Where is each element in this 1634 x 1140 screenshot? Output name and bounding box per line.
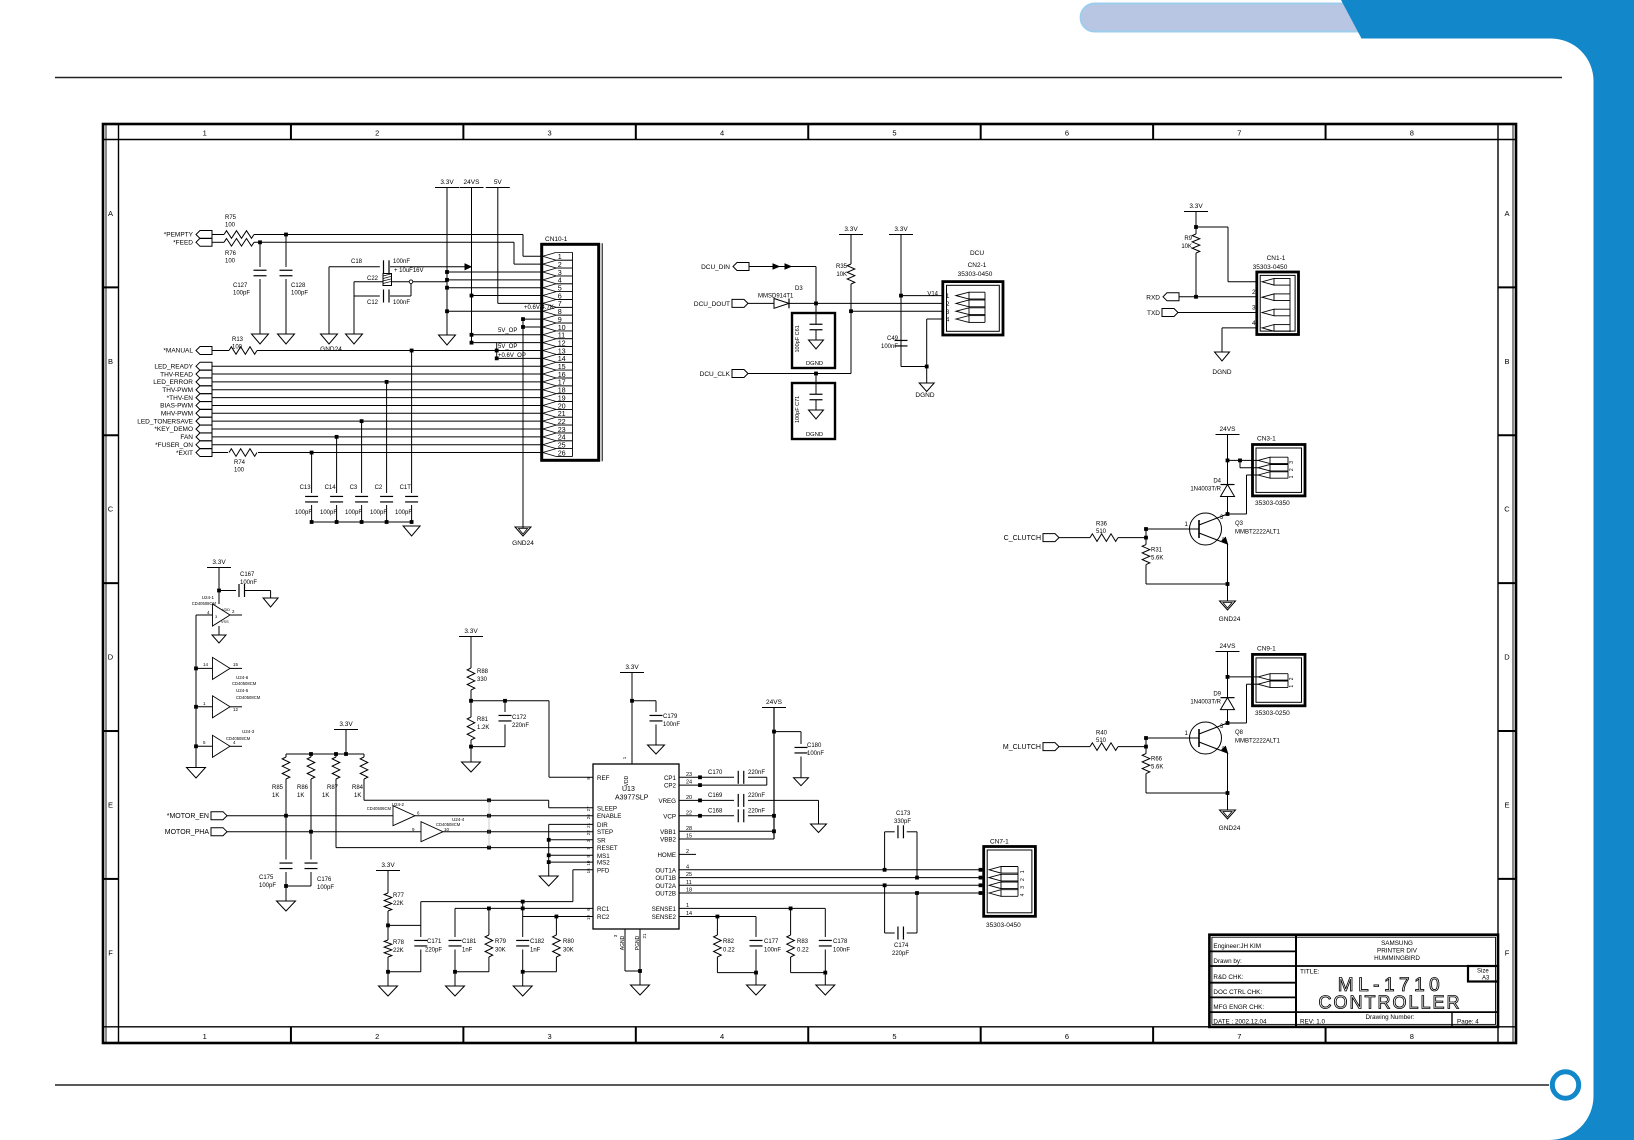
svg-text:5: 5	[892, 129, 896, 138]
svg-text:21: 21	[586, 822, 591, 828]
svg-text:D3: D3	[795, 286, 803, 292]
svg-text:C14: C14	[325, 485, 337, 491]
svg-text:100nF: 100nF	[764, 948, 781, 954]
svg-text:220nF: 220nF	[512, 723, 529, 729]
svg-text:35303-0450: 35303-0450	[958, 271, 993, 278]
svg-text:2: 2	[1289, 468, 1295, 471]
svg-text:*FUSER_ON: *FUSER_ON	[155, 442, 193, 449]
svg-text:CD40508CM: CD40508CM	[232, 681, 257, 686]
svg-text:MOTOR_PHA: MOTOR_PHA	[165, 829, 210, 836]
svg-text:4: 4	[720, 129, 724, 138]
svg-text:R76: R76	[225, 251, 237, 257]
svg-text:C172: C172	[512, 715, 527, 721]
svg-text:24VS: 24VS	[1220, 426, 1237, 433]
svg-text:2: 2	[375, 1032, 379, 1041]
svg-text:2: 2	[1289, 677, 1295, 680]
svg-text:HUMMINGBIRD: HUMMINGBIRD	[1374, 955, 1420, 962]
svg-text:100pF: 100pF	[370, 510, 387, 516]
svg-text:1.2K: 1.2K	[477, 725, 489, 731]
svg-text:+ 10uF16V: + 10uF16V	[394, 268, 424, 274]
svg-text:CD40508CM: CD40508CM	[236, 695, 261, 700]
svg-text:C181: C181	[462, 939, 477, 945]
svg-text:CN1-1: CN1-1	[1267, 255, 1286, 262]
svg-text:MMSD914T1: MMSD914T1	[758, 294, 794, 300]
svg-text:HOME: HOME	[657, 852, 676, 859]
svg-text:330pF: 330pF	[894, 819, 911, 825]
svg-text:R80: R80	[563, 939, 575, 945]
svg-text:100: 100	[232, 345, 243, 351]
svg-text:C13: C13	[300, 485, 312, 491]
svg-text:3: 3	[1289, 461, 1295, 464]
svg-text:7: 7	[1237, 129, 1241, 138]
svg-text:4: 4	[720, 1032, 724, 1041]
svg-text:DCU: DCU	[970, 250, 984, 257]
svg-text:V14: V14	[927, 292, 938, 298]
svg-text:10: 10	[586, 860, 591, 866]
svg-text:CN7-1: CN7-1	[990, 839, 1009, 846]
svg-text:R40: R40	[1096, 731, 1108, 737]
svg-text:F: F	[1505, 948, 1510, 957]
svg-text:C173: C173	[896, 811, 911, 817]
svg-text:MMBT2222ALT1: MMBT2222ALT1	[1235, 530, 1281, 536]
svg-text:35303-0450: 35303-0450	[1253, 264, 1288, 271]
svg-text:C180: C180	[807, 743, 822, 749]
svg-text:C182: C182	[530, 939, 545, 945]
svg-text:U24-5: U24-5	[236, 688, 249, 693]
svg-text:C_CLUTCH: C_CLUTCH	[1004, 535, 1041, 542]
svg-text:GND24: GND24	[512, 540, 534, 547]
svg-text:U24-6: U24-6	[236, 675, 249, 680]
svg-text:3: 3	[1020, 886, 1026, 889]
svg-text:VDD: VDD	[624, 775, 630, 786]
svg-text:VBB2: VBB2	[660, 837, 676, 844]
svg-text:VDD: VDD	[222, 608, 230, 612]
svg-text:DGND: DGND	[806, 361, 823, 367]
svg-text:26: 26	[558, 448, 566, 457]
svg-text:C178: C178	[833, 939, 848, 945]
svg-text:DGND: DGND	[915, 392, 934, 399]
svg-text:C12: C12	[367, 300, 379, 306]
svg-text:2: 2	[375, 129, 379, 138]
svg-text:100pF: 100pF	[345, 510, 362, 516]
svg-text:100pF C71: 100pF C71	[795, 396, 801, 423]
svg-text:1: 1	[203, 129, 207, 138]
svg-text:C: C	[108, 505, 114, 514]
svg-text:10K: 10K	[836, 272, 847, 278]
svg-text:100pF: 100pF	[291, 291, 308, 297]
svg-text:3.3V: 3.3V	[339, 721, 353, 728]
svg-text:22K: 22K	[393, 901, 404, 907]
svg-text:R78: R78	[393, 940, 405, 946]
svg-text:RXD: RXD	[1146, 295, 1160, 302]
svg-text:VSS: VSS	[221, 620, 229, 624]
svg-text:C: C	[1504, 505, 1510, 514]
svg-text:100pF C61: 100pF C61	[795, 325, 801, 352]
svg-text:RC2: RC2	[597, 914, 610, 921]
svg-text:TITLE:: TITLE:	[1300, 969, 1320, 976]
svg-text:*PEMPTY: *PEMPTY	[164, 232, 194, 239]
svg-text:B: B	[108, 357, 113, 366]
svg-text:C167: C167	[240, 572, 255, 578]
svg-text:Drawn by:: Drawn by:	[1213, 958, 1242, 965]
svg-text:C18: C18	[351, 259, 363, 265]
svg-text:C127: C127	[233, 283, 248, 289]
svg-text:F: F	[108, 948, 113, 957]
svg-text:+0.6V_OP: +0.6V_OP	[498, 353, 526, 359]
svg-text:C175: C175	[259, 875, 274, 881]
svg-text:C22: C22	[367, 276, 379, 282]
svg-text:DOC CTRL CHK:: DOC CTRL CHK:	[1213, 989, 1262, 996]
svg-text:OUT2A: OUT2A	[655, 883, 677, 890]
svg-text:3.3V: 3.3V	[464, 628, 478, 635]
svg-text:1N4003T/R: 1N4003T/R	[1190, 487, 1221, 493]
svg-text:Q3: Q3	[1235, 521, 1244, 527]
svg-text:330: 330	[477, 677, 488, 683]
svg-text:CN3-1: CN3-1	[1257, 436, 1276, 443]
svg-text:220nF: 220nF	[748, 793, 765, 799]
svg-text:3.3V: 3.3V	[440, 179, 454, 186]
svg-text:CP1: CP1	[664, 775, 677, 782]
svg-text:21: 21	[642, 933, 647, 939]
svg-text:220nF: 220nF	[748, 770, 765, 776]
svg-text:R74: R74	[234, 460, 246, 466]
svg-text:CONTROLLER: CONTROLLER	[1318, 993, 1461, 1013]
svg-text:A: A	[108, 209, 113, 218]
svg-text:GND24: GND24	[1219, 616, 1241, 623]
svg-text:MS2: MS2	[597, 860, 610, 867]
svg-text:26: 26	[586, 814, 591, 820]
svg-text:E: E	[108, 800, 113, 809]
svg-text:5V: 5V	[494, 179, 503, 186]
svg-text:LED_READY: LED_READY	[154, 363, 193, 370]
svg-text:14: 14	[203, 662, 209, 667]
svg-text:510: 510	[1096, 738, 1107, 744]
svg-text:1K: 1K	[354, 793, 361, 799]
svg-text:R31: R31	[1151, 548, 1163, 554]
svg-text:6: 6	[1065, 1032, 1069, 1041]
svg-text:1N4003T/R: 1N4003T/R	[1190, 700, 1221, 706]
svg-text:*KEY_DEMO: *KEY_DEMO	[154, 426, 193, 433]
svg-text:LED_TONERSAVE: LED_TONERSAVE	[137, 418, 193, 425]
svg-text:C169: C169	[708, 793, 723, 799]
svg-text:220pF: 220pF	[892, 951, 909, 957]
svg-text:R36: R36	[1096, 522, 1108, 528]
svg-text:4: 4	[1252, 320, 1256, 327]
svg-text:SLEEP: SLEEP	[597, 805, 617, 812]
svg-text:7: 7	[1237, 1032, 1241, 1041]
svg-text:OUT2B: OUT2B	[655, 891, 676, 898]
svg-text:GND24: GND24	[320, 346, 342, 353]
svg-text:100: 100	[225, 223, 236, 229]
svg-text:CP2: CP2	[664, 783, 677, 790]
svg-text:FAN: FAN	[180, 434, 193, 441]
svg-text:3: 3	[548, 129, 552, 138]
svg-text:R79: R79	[495, 939, 507, 945]
svg-text:R87: R87	[327, 785, 339, 791]
svg-text:22K: 22K	[393, 948, 404, 954]
svg-text:U24-2: U24-2	[392, 802, 405, 807]
svg-text:R83: R83	[797, 939, 809, 945]
svg-text:M_CLUTCH: M_CLUTCH	[1003, 744, 1041, 751]
svg-text:PFD: PFD	[597, 867, 610, 874]
svg-text:C1T: C1T	[400, 485, 412, 491]
svg-text:1K: 1K	[272, 793, 279, 799]
svg-text:6: 6	[1065, 129, 1069, 138]
svg-text:5.6K: 5.6K	[1151, 765, 1163, 771]
svg-text:100: 100	[234, 468, 245, 474]
svg-text:DCU_DOUT: DCU_DOUT	[694, 301, 730, 308]
svg-text:MHV-PWM: MHV-PWM	[161, 411, 193, 418]
svg-text:10K: 10K	[1181, 244, 1192, 250]
svg-text:D4: D4	[1213, 479, 1221, 485]
svg-text:Q8: Q8	[1235, 730, 1244, 736]
svg-text:100nF: 100nF	[833, 948, 850, 954]
svg-text:100nF: 100nF	[393, 300, 410, 306]
svg-text:35303-0350: 35303-0350	[1255, 500, 1290, 507]
svg-text:24VS: 24VS	[464, 179, 481, 186]
svg-text:R81: R81	[477, 717, 489, 723]
svg-text:CD40508CM: CD40508CM	[367, 806, 392, 811]
svg-text:C168: C168	[708, 809, 723, 815]
svg-text:3.3V: 3.3V	[212, 559, 226, 566]
svg-text:R75: R75	[225, 215, 237, 221]
svg-text:R66: R66	[1151, 757, 1163, 763]
svg-text:35303-0450: 35303-0450	[986, 922, 1021, 929]
svg-text:D9: D9	[1213, 692, 1221, 698]
svg-text:*MOTOR_EN: *MOTOR_EN	[167, 813, 209, 820]
svg-text:VREG: VREG	[658, 798, 676, 805]
svg-text:5.6K: 5.6K	[1151, 556, 1163, 562]
svg-text:A: A	[1504, 209, 1509, 218]
svg-text:SR: SR	[597, 837, 606, 844]
svg-text:*MANUAL: *MANUAL	[163, 348, 193, 355]
svg-text:SAMSUNG: SAMSUNG	[1381, 940, 1413, 947]
svg-text:100pF: 100pF	[233, 291, 250, 297]
svg-text:THV-PWM: THV-PWM	[162, 387, 193, 394]
svg-text:*EXIT: *EXIT	[176, 450, 193, 457]
svg-text:35303-0250: 35303-0250	[1255, 710, 1290, 717]
svg-text:3.3V: 3.3V	[381, 862, 395, 869]
svg-text:C2: C2	[375, 485, 383, 491]
svg-text:1nF: 1nF	[462, 948, 473, 954]
svg-text:5V_OP: 5V_OP	[498, 344, 517, 350]
svg-text:R88: R88	[477, 669, 489, 675]
svg-text:DATE : 2002.12.04: DATE : 2002.12.04	[1213, 1019, 1267, 1026]
svg-text:C170: C170	[708, 770, 723, 776]
svg-text:R84: R84	[352, 785, 364, 791]
svg-text:R85: R85	[272, 785, 284, 791]
svg-text:TXD: TXD	[1147, 310, 1160, 317]
svg-text:VCP: VCP	[663, 813, 676, 820]
svg-text:U24-1: U24-1	[202, 595, 215, 600]
svg-text:OUT1A: OUT1A	[655, 867, 677, 874]
svg-text:DGND: DGND	[806, 432, 823, 438]
svg-text:MMBT2222ALT1: MMBT2222ALT1	[1235, 739, 1281, 745]
svg-text:Drawing Number:: Drawing Number:	[1366, 1014, 1415, 1021]
svg-text:SENSE2: SENSE2	[652, 914, 677, 921]
svg-text:Size: Size	[1477, 969, 1489, 975]
svg-text:CN2-1: CN2-1	[968, 262, 987, 269]
svg-text:0.22: 0.22	[797, 948, 809, 954]
svg-text:R9: R9	[1184, 236, 1192, 242]
svg-text:SENSE1: SENSE1	[652, 906, 677, 913]
svg-text:15: 15	[233, 662, 239, 667]
svg-text:R&D CHK:: R&D CHK:	[1213, 974, 1243, 981]
svg-text:220nF: 220nF	[748, 809, 765, 815]
svg-text:ENABLE: ENABLE	[597, 813, 621, 820]
svg-text:100pF: 100pF	[317, 885, 334, 891]
svg-text:CN9-1: CN9-1	[1257, 645, 1276, 652]
svg-text:E: E	[1504, 800, 1509, 809]
svg-text:CN10-1: CN10-1	[545, 236, 568, 243]
svg-text:19: 19	[586, 915, 591, 921]
svg-text:RC1: RC1	[597, 906, 610, 913]
svg-text:R35: R35	[836, 264, 848, 270]
svg-text:3.3V: 3.3V	[625, 664, 639, 671]
svg-text:100pF: 100pF	[320, 510, 337, 516]
svg-text:30K: 30K	[563, 948, 574, 954]
svg-text:220pF: 220pF	[425, 948, 442, 954]
svg-text:2: 2	[1020, 878, 1026, 881]
svg-text:DCU_DIN: DCU_DIN	[701, 264, 730, 271]
svg-text:4: 4	[1020, 893, 1026, 896]
svg-text:Page: 4: Page: 4	[1457, 1019, 1479, 1026]
svg-text:3.3V: 3.3V	[844, 226, 858, 233]
svg-text:1K: 1K	[297, 793, 304, 799]
svg-text:C171: C171	[427, 939, 442, 945]
svg-text:1: 1	[203, 1032, 207, 1041]
svg-text:24VS: 24VS	[1220, 643, 1237, 650]
svg-text:16: 16	[586, 868, 591, 874]
svg-text:3.3V: 3.3V	[894, 226, 908, 233]
svg-text:REV: 1.0: REV: 1.0	[1300, 1019, 1325, 1026]
svg-text:3: 3	[1252, 305, 1256, 312]
svg-text:C3: C3	[350, 485, 358, 491]
svg-text:100nF: 100nF	[663, 722, 680, 728]
svg-text:1K: 1K	[322, 793, 329, 799]
svg-text:D: D	[108, 653, 114, 662]
svg-text:GND24: GND24	[1219, 825, 1241, 832]
svg-text:STEP: STEP	[597, 829, 613, 836]
svg-text:30K: 30K	[495, 948, 506, 954]
svg-text:24VS: 24VS	[766, 699, 783, 706]
svg-text:5V_OP: 5V_OP	[498, 328, 517, 334]
svg-text:8: 8	[1410, 129, 1414, 138]
svg-text:0.22: 0.22	[723, 948, 735, 954]
svg-text:R13: R13	[232, 337, 244, 343]
svg-text:CD40508CM: CD40508CM	[226, 736, 251, 741]
svg-text:+0.6V/4.7K: +0.6V/4.7K	[524, 305, 554, 311]
svg-text:C174: C174	[894, 943, 909, 949]
svg-text:100nF: 100nF	[881, 344, 898, 350]
svg-text:100pF: 100pF	[259, 883, 276, 889]
svg-text:1: 1	[1020, 870, 1026, 873]
svg-text:1: 1	[1289, 475, 1295, 478]
svg-text:B: B	[1504, 357, 1509, 366]
svg-text:1: 1	[1289, 685, 1295, 688]
svg-text:DCU_CLK: DCU_CLK	[700, 371, 731, 378]
svg-text:OUT1B: OUT1B	[655, 875, 676, 882]
svg-text:C176: C176	[317, 877, 332, 883]
svg-text:R86: R86	[297, 785, 309, 791]
svg-text:3: 3	[548, 1032, 552, 1041]
svg-text:C177: C177	[764, 939, 779, 945]
svg-text:LED_ERROR: LED_ERROR	[153, 379, 193, 386]
svg-text:U24-3: U24-3	[242, 729, 255, 734]
svg-text:PRINTER DIV: PRINTER DIV	[1377, 948, 1418, 955]
svg-text:Engineer:JH KIM: Engineer:JH KIM	[1213, 943, 1261, 950]
svg-text:100pF: 100pF	[295, 510, 312, 516]
svg-text:100nF: 100nF	[240, 580, 257, 586]
svg-text:D: D	[1504, 653, 1510, 662]
svg-text:R82: R82	[723, 939, 735, 945]
svg-text:5: 5	[892, 1032, 896, 1041]
svg-text:510: 510	[1096, 529, 1107, 535]
svg-text:A3: A3	[1482, 976, 1490, 982]
svg-text:100pF: 100pF	[395, 510, 412, 516]
svg-text:*FEED: *FEED	[173, 240, 193, 247]
svg-text:DIR: DIR	[597, 822, 608, 829]
svg-text:C179: C179	[663, 714, 678, 720]
svg-text:A3977SLP: A3977SLP	[615, 795, 649, 802]
svg-text:12: 12	[233, 707, 239, 712]
svg-text:VBB1: VBB1	[660, 829, 676, 836]
svg-text:100nF: 100nF	[393, 259, 410, 265]
svg-text:R77: R77	[393, 893, 405, 899]
svg-text:22: 22	[586, 830, 591, 836]
svg-text:RESET: RESET	[597, 845, 618, 852]
svg-text:100nF: 100nF	[807, 751, 824, 757]
svg-text:CD40508CM: CD40508CM	[192, 601, 217, 606]
svg-text:100: 100	[225, 259, 236, 265]
svg-text:C128: C128	[291, 283, 306, 289]
svg-text:*THV-EN: *THV-EN	[167, 395, 194, 402]
svg-text:8: 8	[1410, 1032, 1414, 1041]
svg-text:DGND: DGND	[1212, 369, 1231, 376]
svg-text:2: 2	[1252, 289, 1256, 296]
svg-text:27: 27	[586, 806, 591, 812]
svg-text:MFG ENGR CHK:: MFG ENGR CHK:	[1213, 1004, 1264, 1011]
svg-text:1nF: 1nF	[530, 948, 541, 954]
svg-text:REF: REF	[597, 775, 610, 782]
svg-text:C49: C49	[887, 336, 899, 342]
svg-text:BIAS-PWM: BIAS-PWM	[160, 403, 193, 410]
svg-text:3.3V: 3.3V	[1189, 203, 1203, 210]
svg-text:THV-READ: THV-READ	[160, 371, 193, 378]
